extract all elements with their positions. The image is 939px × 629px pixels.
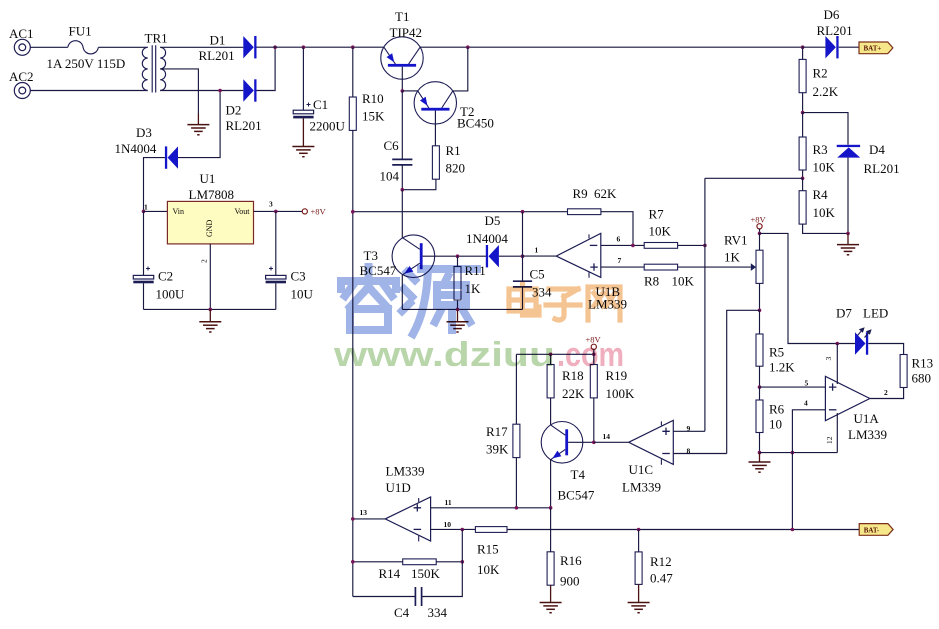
LED arrows	[858, 328, 871, 337]
svg-text:R9: R9	[573, 186, 588, 201]
resistor R2 2.2K	[802, 47, 804, 59]
node T4 base R19 U1C out	[592, 441, 596, 445]
svg-text:820: 820	[446, 161, 466, 176]
capacitor C4 334	[415, 587, 421, 606]
op-amp U1D LM339 triangle	[385, 497, 430, 541]
svg-text:LM339: LM339	[386, 464, 425, 479]
ground symbol R12	[628, 603, 650, 613]
svg-text:GND: GND	[205, 219, 214, 237]
node T3 base R11	[456, 254, 460, 258]
potentiometer RV1 1K body	[759, 233, 761, 250]
wire U1B pin7 to R8	[601, 266, 644, 268]
U1C power ticks	[660, 421, 662, 464]
node R7 vertical	[703, 244, 707, 248]
svg-text:11: 11	[445, 498, 452, 507]
node D3 branch	[218, 89, 222, 93]
node R17 pin11	[515, 506, 519, 510]
wire tap down to diode D3	[178, 91, 220, 158]
resistor R3 10K	[802, 113, 804, 137]
wire divider node B to U1C column	[705, 177, 803, 179]
U1B plus symbol	[590, 263, 598, 270]
power marker +8V at U1 output	[302, 209, 307, 214]
wire RV1 bottom	[759, 283, 761, 310]
svg-text:R7: R7	[649, 207, 665, 222]
svg-text:1K: 1K	[724, 250, 741, 265]
svg-text:D2: D2	[226, 103, 242, 118]
svg-text:100U: 100U	[156, 287, 186, 302]
svg-text:www.dziuu: www.dziuu	[333, 336, 555, 374]
diode D6 RL201	[803, 46, 826, 48]
wire pin4 riser	[792, 410, 825, 453]
svg-text:RL201: RL201	[864, 161, 900, 176]
svg-text:BAT-: BAT-	[864, 526, 880, 534]
node R2 top rail	[801, 45, 805, 49]
wire BAT- rail	[507, 529, 859, 531]
resistor R1 820	[432, 146, 439, 179]
svg-text:1N4004: 1N4004	[466, 231, 508, 246]
svg-text:C6: C6	[384, 138, 400, 153]
wire R5 to node	[759, 366, 761, 387]
resistor R5 1.2K	[759, 310, 761, 334]
wire R18 to T4 collector	[550, 398, 552, 425]
resistor R11 1K	[454, 267, 461, 301]
node RV1 top	[758, 232, 762, 236]
diode D1 RL201	[243, 36, 256, 58]
wire R8 to RV1 wiper	[678, 266, 751, 268]
svg-text:2: 2	[200, 259, 209, 263]
svg-text:C3: C3	[291, 269, 306, 284]
wire R11 bottom stub	[457, 300, 459, 309]
resistor R15 10K	[475, 527, 507, 533]
U1A pin3 power stub	[836, 344, 838, 385]
diode D7 LED	[855, 332, 868, 354]
node RV1 bottom pin8 tap	[758, 309, 762, 313]
svg-text:RV1: RV1	[724, 233, 748, 248]
node T4 emitter pin11	[549, 506, 553, 510]
svg-text:10K: 10K	[813, 160, 836, 175]
svg-text:7: 7	[618, 256, 622, 265]
wire left rail long vertical	[352, 130, 354, 596]
svg-text:6: 6	[617, 235, 621, 244]
node R3 R4 divider	[801, 177, 805, 181]
wire top rail right of T1	[420, 46, 802, 48]
svg-text:D4: D4	[869, 142, 885, 157]
transformer TR1 core	[152, 45, 156, 92]
U1B power ticks	[588, 234, 590, 277]
U1D power ticks	[418, 498, 420, 541]
ground stub R4	[847, 233, 849, 244]
power marker +8V header	[591, 344, 596, 349]
wire R4 bottom to ground node	[803, 224, 848, 233]
wire R7 to divider node	[678, 244, 705, 246]
svg-text:10K: 10K	[477, 562, 500, 577]
svg-text:13: 13	[360, 508, 368, 517]
node pin10 R14 riser	[461, 528, 465, 532]
wire +8V feed to D7 anode line	[760, 233, 856, 343]
node BAT- riser	[791, 451, 795, 455]
diode D3 1N4004	[165, 146, 178, 168]
wire AC2 to transformer primary	[31, 90, 148, 92]
svg-text:5: 5	[805, 379, 809, 388]
ground symbol C1	[292, 147, 314, 157]
svg-text:C1: C1	[313, 97, 328, 112]
wire T3 emitter down	[401, 275, 403, 310]
svg-text:12: 12	[825, 436, 834, 444]
svg-text:Vout: Vout	[235, 207, 251, 216]
wire T4 emitter down	[550, 460, 552, 508]
power marker +8V RV1	[757, 224, 762, 229]
AC input terminal AC2	[14, 83, 30, 99]
wire R3 to node B	[802, 170, 804, 178]
svg-text:C4: C4	[394, 605, 410, 620]
svg-text:R8: R8	[644, 274, 659, 289]
resistor R8 10K	[644, 264, 677, 270]
svg-text:R15: R15	[477, 542, 499, 557]
svg-text:39K: 39K	[486, 442, 509, 457]
node R14 riser	[461, 560, 465, 564]
wire R9 to pin6 node	[601, 212, 633, 246]
wire secondary top to diode D1	[160, 46, 243, 48]
ground stub R6	[759, 453, 761, 462]
svg-text:2200U: 2200U	[310, 119, 346, 134]
svg-text:4: 4	[804, 399, 808, 408]
node R6 ground net	[758, 451, 762, 455]
transformer TR1 secondary winding	[160, 47, 165, 90]
wire T2 base stub down to R1	[434, 111, 436, 146]
svg-text:10K: 10K	[813, 205, 836, 220]
node pin13 left rail	[351, 517, 355, 521]
wire pin8 net to U1C	[727, 310, 760, 453]
node D1-D2 junction	[273, 45, 277, 49]
node R10 rail tap	[351, 45, 355, 49]
ground stub center tap	[197, 114, 199, 125]
wire C4 left to rail corner	[353, 596, 415, 598]
resistor R18 22K	[550, 354, 552, 364]
fuse FU1	[68, 41, 99, 54]
svg-text:3: 3	[269, 200, 273, 209]
svg-text:1.2K: 1.2K	[769, 360, 795, 375]
svg-text:D1: D1	[210, 33, 226, 48]
wire D4 branch top	[803, 113, 848, 145]
node left rail bus	[351, 210, 355, 214]
svg-text:100K: 100K	[606, 386, 636, 401]
wire T2 emitter to junction	[402, 90, 418, 92]
svg-text:U1: U1	[200, 171, 216, 186]
svg-text:LM339: LM339	[848, 427, 887, 442]
svg-text:C5: C5	[530, 267, 545, 282]
wire pin1 node up to bus	[522, 212, 524, 257]
svg-text:D3: D3	[136, 125, 152, 140]
transistor T1 TIP42	[381, 37, 423, 79]
wire bus U1B pin1 net	[353, 211, 568, 213]
wire R14 feedback line	[353, 561, 403, 563]
svg-text:680: 680	[912, 371, 932, 386]
wire left rail top	[352, 47, 354, 97]
svg-text:FU1: FU1	[69, 24, 92, 39]
svg-text:BC450: BC450	[457, 116, 494, 131]
svg-text:D6: D6	[824, 7, 840, 22]
svg-text:Vin: Vin	[173, 207, 185, 216]
svg-text:62K: 62K	[594, 186, 617, 201]
svg-text:BC547: BC547	[558, 488, 595, 503]
node U1B pin1 C5	[521, 254, 525, 258]
wire D3 cathode to U1 input	[144, 158, 165, 212]
wire R11 top stub	[457, 256, 459, 266]
wire U1D output pin13	[353, 518, 385, 520]
wire U1C pin9 to divider column	[673, 430, 705, 432]
svg-text:10U: 10U	[291, 287, 314, 302]
resistor R13 680	[900, 355, 907, 388]
svg-text:RL201: RL201	[817, 23, 853, 38]
AC input terminal AC1	[14, 39, 30, 55]
node R2 R3 D4	[801, 111, 805, 115]
capacitor C1 2200U polarized	[302, 47, 304, 110]
wire AC1 to fuse	[31, 46, 68, 48]
resistor R19 100K	[593, 354, 595, 364]
wire D5 anode to pin1 node	[499, 255, 523, 257]
svg-text:AC1: AC1	[9, 26, 34, 41]
wire R1 bottom to C6 node	[402, 179, 436, 190]
capacitor C2 100U polarized	[143, 211, 145, 275]
svg-text:AC2: AC2	[9, 69, 34, 84]
svg-text:R14: R14	[379, 566, 401, 581]
wire R6 bottom	[759, 433, 761, 453]
svg-text:1: 1	[535, 246, 539, 255]
svg-text:3: 3	[824, 357, 833, 361]
transistor T3 BC547	[392, 235, 435, 278]
wire D6 to BAT+ terminal	[839, 46, 859, 48]
U1B minus symbol	[590, 244, 598, 246]
node U1 output	[274, 210, 278, 214]
wire pin5 to U1A plus input	[760, 386, 826, 388]
node D7 anode pin3	[836, 342, 840, 346]
svg-text:.com: .com	[557, 336, 624, 374]
wire fuse to transformer primary	[98, 46, 147, 48]
svg-text:2: 2	[884, 388, 888, 397]
wire ground net to pin12 corner	[760, 452, 838, 454]
wire T2 collector	[453, 47, 468, 91]
op-amp U1A LM339 triangle	[825, 376, 869, 420]
svg-text:2.2K: 2.2K	[813, 84, 839, 99]
wire R17 column top	[515, 354, 517, 424]
wire D4 anode down	[847, 158, 849, 234]
svg-text:U1C: U1C	[629, 462, 654, 477]
svg-text:104: 104	[380, 169, 400, 184]
svg-text:R2: R2	[813, 66, 828, 81]
ground symbol T3 rail	[447, 322, 469, 332]
resistor R17 39K	[513, 424, 520, 457]
wire T1 base to C6	[401, 91, 403, 159]
svg-text:R17: R17	[486, 424, 508, 439]
svg-text:R6: R6	[769, 402, 785, 417]
wire R17 bottom to pin11 line	[515, 458, 517, 508]
wire +8V to RV1 node	[759, 229, 761, 234]
svg-text:D5: D5	[485, 213, 501, 228]
svg-text:R16: R16	[560, 553, 582, 568]
svg-text:U1D: U1D	[386, 480, 411, 495]
svg-text:R3: R3	[813, 142, 828, 157]
watermark overlay	[333, 267, 624, 374]
svg-text:1A 250V 115D: 1A 250V 115D	[47, 56, 126, 71]
resistor R12 0.47	[638, 530, 640, 552]
U1A minus symbol	[829, 409, 837, 411]
U1D plus symbol	[414, 504, 422, 511]
svg-text:T1: T1	[395, 9, 409, 24]
ground symbol R16	[540, 603, 562, 613]
wire U1C output pin14	[594, 441, 629, 443]
svg-text:10K: 10K	[649, 224, 672, 239]
transformer TR1 primary winding	[142, 47, 147, 90]
wire long vertical R7 node to U1C pin9	[704, 178, 706, 431]
svg-text:10K: 10K	[672, 274, 695, 289]
node U1 ground	[209, 308, 213, 312]
svg-text:T4: T4	[571, 467, 586, 482]
wire riser pin10 to C4	[422, 530, 463, 597]
svg-text:14: 14	[603, 432, 611, 441]
wire secondary bottom to diode D2	[160, 90, 243, 92]
svg-text:R10: R10	[362, 91, 384, 106]
svg-text:R4: R4	[813, 187, 829, 202]
wire R19 down to T4 base node	[593, 398, 595, 442]
ground stub R16	[550, 585, 552, 602]
svg-text:10: 10	[444, 520, 452, 529]
terminal BAT-	[859, 524, 893, 536]
svg-text:R1: R1	[446, 143, 461, 158]
svg-text:1N4004: 1N4004	[115, 141, 157, 156]
svg-text:15K: 15K	[362, 109, 385, 124]
svg-text:22K: 22K	[562, 386, 585, 401]
capacitor C5 334	[522, 256, 524, 281]
ground symbol R4	[837, 245, 859, 255]
resistor R10 15K	[349, 97, 356, 130]
resistor R6 10	[759, 387, 761, 400]
U1A plus symbol	[829, 383, 837, 390]
diode D2 RL201	[243, 79, 256, 101]
wire riser down to BAT- rail	[791, 453, 793, 530]
wire into U1 Vin	[144, 210, 168, 212]
wire T3 emitter ground rail	[402, 308, 522, 310]
node R4 D4 ground	[846, 232, 850, 236]
svg-text:LED: LED	[863, 306, 888, 321]
wire U1D pin10 to R15	[431, 528, 476, 530]
svg-text:C2: C2	[158, 269, 173, 284]
resistor R16 900	[550, 508, 552, 552]
node pin6 R9 feedback	[631, 244, 635, 248]
resistor R4 10K	[802, 178, 804, 190]
node R19 top +8V	[592, 353, 596, 357]
svg-text:+8V: +8V	[311, 207, 327, 217]
wire D7 cathode to R13	[868, 344, 903, 355]
wire T3 base to R11 D5 node	[423, 255, 486, 257]
node T1 base T2 emitter junction	[401, 89, 405, 93]
regulator U1 LM7808 body	[167, 201, 253, 244]
U1C plus symbol	[662, 428, 670, 435]
wire top positive rail left segment	[257, 46, 384, 48]
U1 pin2 stub to ground rail	[209, 244, 211, 310]
wire U1D pin11 line	[431, 507, 551, 509]
node R5 R6 pin5	[758, 385, 762, 389]
svg-text:LM339: LM339	[622, 480, 661, 495]
svg-text:RL201: RL201	[226, 118, 262, 133]
wire T3 collector	[401, 190, 403, 238]
capacitor C6 104	[392, 159, 412, 165]
svg-text:9: 9	[687, 424, 691, 433]
svg-text:0.47: 0.47	[650, 571, 673, 586]
op-amp U1B LM339 triangle	[556, 233, 601, 277]
node R11 ground rail	[456, 308, 460, 312]
svg-text:D7: D7	[836, 306, 852, 321]
ground symbol U1	[199, 322, 221, 332]
resistor R14 150K	[403, 559, 437, 565]
svg-text:+8V: +8V	[751, 215, 767, 225]
resistor R9 62K	[568, 209, 601, 215]
wire U1B pin6 to R7	[601, 244, 644, 246]
ground symbol R6	[749, 462, 771, 472]
svg-text:334: 334	[428, 605, 448, 620]
U1A pin12 power stub	[836, 413, 838, 453]
svg-text:T3: T3	[364, 248, 378, 263]
node BAT- riser tap	[791, 528, 795, 532]
capacitor C3 10U polarized	[275, 211, 277, 275]
svg-text:R5: R5	[769, 345, 784, 360]
op-amp U1C LM339 triangle	[629, 420, 674, 464]
ground stub R12	[638, 584, 640, 602]
node C5 bus tap	[521, 210, 525, 214]
wire R13 to U1A output pin2	[870, 388, 904, 399]
wire U1C pin8 to corner	[673, 453, 726, 455]
diode D5 1N4004	[486, 245, 499, 267]
svg-text:RL201: RL201	[199, 48, 235, 63]
ground stub C1	[302, 118, 304, 146]
wire T1 base down	[401, 67, 403, 91]
U1D minus symbol	[414, 528, 422, 530]
wire R2 to node A	[802, 93, 804, 113]
node C6 R1 T3 junction	[401, 188, 405, 192]
wire R14 right to riser	[436, 561, 462, 563]
wire C6 bottom to node	[401, 165, 403, 189]
wire T4 base to node	[568, 441, 594, 443]
node R14 left rail	[351, 560, 355, 564]
ground stub T3 rail	[457, 309, 459, 321]
node R12 tap	[637, 528, 641, 532]
terminal BAT+	[859, 42, 893, 54]
ground stub U1	[209, 309, 211, 321]
svg-text:900: 900	[560, 574, 580, 589]
svg-text:BAT+: BAT+	[864, 45, 882, 53]
svg-text:R12: R12	[650, 554, 672, 569]
wire secondary center tap	[160, 69, 198, 114]
svg-text:LM7808: LM7808	[189, 187, 235, 202]
svg-text:150K: 150K	[411, 566, 441, 581]
svg-text:TR1: TR1	[145, 31, 168, 46]
wire ground rail under U1	[144, 308, 276, 310]
node U1 pin1	[142, 210, 146, 214]
node R18 top	[549, 353, 553, 357]
ground symbol transformer tap	[187, 125, 209, 135]
svg-text:1: 1	[144, 203, 148, 212]
diode D4 RL201 vertical	[837, 145, 861, 158]
wire U1B output pin1	[523, 255, 557, 257]
transistor T4 BC547	[541, 422, 583, 464]
wire U1 Vout to +8V node	[254, 210, 303, 212]
svg-text:U1A: U1A	[854, 411, 880, 426]
wire D2 cathode up to positive rail	[257, 47, 276, 90]
resistor R7 10K	[644, 243, 677, 249]
transistor T2 BC450	[414, 82, 456, 124]
svg-text:TIP42: TIP42	[390, 25, 423, 40]
RV1 wiper arrow	[751, 263, 756, 271]
U1C minus symbol	[662, 453, 670, 455]
